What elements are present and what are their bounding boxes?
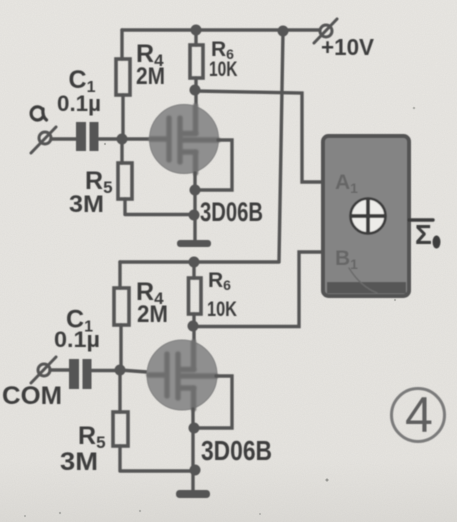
node gate junction (upper)	[117, 134, 128, 145]
wire top +10V rail	[122, 28, 319, 31]
wire +10V feed down to lower rail	[279, 31, 283, 261]
resistor R5 (lower)	[60, 370, 195, 476]
wire lower +10V rail	[120, 260, 279, 263]
wire output	[409, 218, 433, 221]
node source-R5 junction (lower)	[190, 465, 201, 476]
transistor Q1 3D06B (upper MOSFET)	[150, 105, 264, 228]
node output sigma0 label	[415, 219, 441, 250]
capacitor C1 (upper)	[51, 66, 122, 151]
resistor R4 (upper)	[116, 30, 165, 139]
svg-text:2M: 2M	[136, 63, 165, 90]
svg-text:3M: 3M	[60, 448, 98, 476]
ground (upper)	[177, 240, 211, 247]
wire substrate loop (lower)	[194, 376, 232, 428]
node substrate-source junction (lower)	[189, 423, 200, 434]
wire drain to block input A	[195, 91, 322, 182]
svg-text:4: 4	[405, 387, 433, 443]
node drain junction (upper)	[190, 85, 201, 96]
node junction top rail feed	[278, 26, 289, 37]
terminal a (upper input)	[31, 107, 56, 153]
svg-text:0.1µ: 0.1µ	[57, 91, 101, 116]
capacitor C1 (lower)	[50, 306, 120, 390]
wire substrate loop (upper)	[195, 140, 232, 190]
svg-text:+10V: +10V	[321, 34, 375, 60]
node substrate-source junction (upper)	[190, 185, 201, 196]
ground (lower)	[176, 490, 210, 498]
wire drain to block input B	[193, 252, 322, 327]
summing block U1	[323, 136, 409, 296]
wire gate (lower)	[120, 370, 147, 372]
svg-text:Σ: Σ	[415, 219, 432, 250]
node source-R5 junction (upper)	[189, 210, 200, 221]
resistor R5 (upper)	[69, 139, 194, 218]
wire source down (upper)	[193, 173, 196, 240]
resistor R4 (lower)	[114, 262, 168, 370]
node junction top rail at R6	[191, 25, 202, 36]
svg-text:10K: 10K	[209, 58, 238, 81]
resistor R6 (upper)	[190, 30, 238, 105]
node gate junction (lower)	[115, 365, 126, 376]
svg-text:3D06B: 3D06B	[201, 435, 272, 466]
terminal +10V	[314, 19, 375, 60]
node junction lower rail at R6	[189, 257, 200, 268]
node drain junction (lower)	[188, 321, 199, 332]
resistor R6 (lower)	[189, 262, 238, 341]
node figure number 4	[392, 387, 445, 443]
svg-text:COM: COM	[2, 382, 62, 410]
svg-text:3D06B: 3D06B	[200, 197, 263, 227]
terminal COM (lower input)	[2, 357, 62, 410]
wire gate (upper)	[122, 137, 150, 140]
wire source down (lower)	[191, 409, 194, 490]
transistor Q2 3D06B (lower MOSFET)	[147, 340, 272, 466]
svg-text:0.1µ: 0.1µ	[54, 327, 100, 352]
svg-text:3M: 3M	[69, 191, 104, 218]
svg-text:10K: 10K	[207, 298, 237, 321]
svg-text:2M: 2M	[137, 301, 168, 328]
